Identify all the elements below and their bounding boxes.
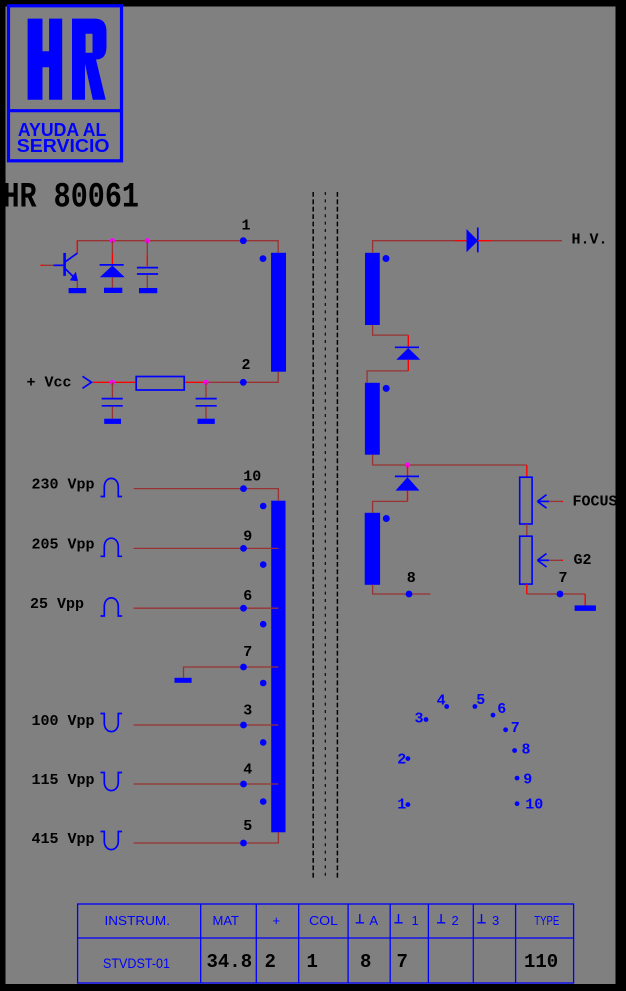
- ground (C1): [139, 288, 157, 293]
- waveform positive pulse: [101, 478, 123, 496]
- svg-text:HR 80061: HR 80061: [3, 178, 140, 218]
- pin diagram dot 5: [473, 704, 478, 709]
- polarity dot: [260, 798, 267, 805]
- table column lines: [200, 904, 202, 983]
- secondary winding S4 (tapped): [271, 501, 285, 833]
- core dashed line left: [312, 192, 314, 879]
- pin 8 dot: [406, 591, 413, 598]
- ground (C2): [104, 419, 121, 424]
- pin 5 dot: [240, 840, 247, 847]
- wire: Vcc red segments: [93, 381, 136, 383]
- ground (pin 7): [175, 678, 192, 683]
- pin diagram dot 3: [424, 717, 429, 722]
- pin 7 dot: [240, 664, 247, 671]
- pin 3 dot: [240, 722, 247, 729]
- capacitor C1: [137, 268, 158, 274]
- pin diagram dot 9: [515, 776, 520, 781]
- svg-text:230 Vpp: 230 Vpp: [32, 477, 95, 494]
- svg-text:2: 2: [242, 357, 251, 374]
- svg-text:FOCUS: FOCUS: [573, 493, 618, 510]
- capacitor C2: [102, 399, 123, 406]
- diode D1: [100, 265, 125, 277]
- svg-text:MAT: MAT: [213, 913, 240, 928]
- waveform positive pulse: [101, 538, 123, 556]
- svg-text:2: 2: [397, 752, 406, 769]
- svg-text:4: 4: [243, 761, 252, 778]
- header ⊥ 3: [477, 914, 485, 923]
- svg-text:STVDST-01: STVDST-01: [103, 956, 170, 971]
- wire: C1 to ground: [146, 275, 148, 288]
- ground (D1): [104, 288, 122, 293]
- svg-text:1: 1: [397, 797, 406, 814]
- svg-text:COL: COL: [309, 913, 338, 928]
- junction dot: [110, 238, 115, 243]
- secondary winding S1: [365, 253, 380, 325]
- table row divider: [78, 937, 574, 939]
- wire to capacitor C1: [146, 241, 148, 255]
- pin diagram dot 10: [515, 801, 520, 806]
- pin 9 dot: [240, 545, 247, 552]
- polarity dot: [260, 503, 267, 510]
- junction dot: [110, 380, 115, 385]
- polarity dot: [260, 739, 267, 746]
- secondary winding S2: [365, 383, 380, 455]
- svg-text:TYPE: TYPE: [534, 913, 559, 928]
- wire pin 3: [134, 724, 279, 726]
- core dashed line middle: [324, 192, 326, 879]
- header ⊥ A: [356, 914, 364, 923]
- polarity dot P1: [260, 255, 267, 262]
- potentiometer G2: [520, 536, 532, 584]
- header ⊥ 2: [437, 914, 445, 923]
- svg-text:1: 1: [307, 951, 318, 973]
- logo letter H: [28, 19, 63, 100]
- svg-text:5: 5: [476, 692, 485, 709]
- svg-text:2: 2: [452, 913, 459, 928]
- svg-text:10: 10: [243, 469, 261, 486]
- svg-text:7: 7: [243, 644, 252, 661]
- wire: pin 2 rail to primary bottom: [206, 372, 278, 383]
- svg-text:SERVICIO: SERVICIO: [17, 136, 110, 156]
- pin 4 dot: [240, 781, 247, 788]
- pin 1 dot: [240, 237, 247, 244]
- svg-text:6: 6: [497, 701, 506, 718]
- wire to D3: [407, 465, 409, 476]
- svg-text:8: 8: [522, 741, 531, 758]
- svg-text:415 Vpp: 415 Vpp: [32, 831, 95, 848]
- svg-text:8: 8: [407, 570, 416, 587]
- pin diagram dot 6: [491, 713, 496, 718]
- svg-text:9: 9: [243, 528, 252, 545]
- svg-text:+: +: [273, 913, 281, 928]
- svg-text:100 Vpp: 100 Vpp: [32, 713, 95, 730]
- svg-text:1: 1: [412, 913, 419, 928]
- waveform negative pulse: [101, 832, 123, 850]
- svg-text:115 Vpp: 115 Vpp: [32, 772, 95, 789]
- junction dot: [405, 462, 410, 467]
- pin 2 dot: [240, 379, 247, 386]
- wire pin 4: [134, 783, 279, 785]
- polarity dot: [260, 561, 267, 568]
- wire S1 top to H.V.: [373, 241, 455, 253]
- svg-text:H.V.: H.V.: [572, 232, 608, 249]
- wire: collector rail to pin 1 and primary top: [77, 241, 278, 253]
- wire: emitter to ground: [76, 281, 78, 289]
- potentiometer FOCUS: [520, 477, 532, 524]
- header ⊥ 1: [394, 914, 402, 923]
- resistor R1: [136, 377, 184, 391]
- pin diagram dot 4: [444, 704, 449, 709]
- pin diagram dot 2: [406, 756, 411, 761]
- svg-text:4: 4: [437, 693, 446, 710]
- Vcc input arrow: [83, 376, 92, 388]
- svg-text:3: 3: [415, 710, 424, 727]
- pin diagram dot 7: [503, 727, 508, 732]
- wiper arrow G2: [537, 554, 563, 567]
- svg-text:1: 1: [242, 218, 251, 235]
- wire pin 5 to winding bottom: [134, 832, 279, 843]
- table frame: [78, 904, 574, 983]
- polarity dot S1: [383, 255, 390, 262]
- svg-text:G2: G2: [574, 552, 592, 569]
- pin 6 dot: [240, 605, 247, 612]
- diode D2: [395, 347, 420, 359]
- secondary winding S3: [365, 513, 380, 585]
- svg-text:+ Vcc: + Vcc: [27, 375, 72, 392]
- wire rail to FOCUS pot: [526, 465, 528, 477]
- wire pin 9: [134, 547, 279, 549]
- wire S3 bottom to pin 8: [373, 585, 431, 594]
- waveform positive pulse: [101, 598, 123, 616]
- svg-text:6: 6: [243, 588, 252, 605]
- wire: red collector segment: [76, 240, 78, 253]
- logo letter R: [72, 19, 107, 100]
- HR logo box: [8, 6, 122, 161]
- wire pin 10 to winding top: [134, 489, 279, 501]
- wire D3 to S3 top: [407, 491, 409, 502]
- polarity dot S2: [383, 385, 390, 392]
- pin 10 dot: [240, 485, 247, 492]
- svg-text:INSTRUM.: INSTRUM.: [105, 913, 171, 928]
- svg-text:5: 5: [243, 818, 252, 835]
- pin diagram dot 1: [406, 802, 411, 807]
- waveform negative pulse: [101, 773, 123, 791]
- ground (G2): [575, 605, 596, 611]
- wire: C3 to ground: [205, 407, 207, 419]
- svg-text:110: 110: [524, 951, 558, 973]
- transistor Q1 base wire: [41, 264, 44, 266]
- svg-text:25 Vpp: 25 Vpp: [30, 596, 84, 613]
- wire: D1 to ground: [111, 277, 113, 288]
- wire D4 to H.V. label: [478, 240, 491, 242]
- wiper arrow FOCUS: [537, 495, 563, 508]
- wire D2 to S2 top: [407, 360, 409, 371]
- polarity dot: [260, 621, 267, 628]
- svg-text:8: 8: [360, 951, 371, 973]
- wire S2 bottom rail: [373, 455, 527, 465]
- wire: C2 drop: [111, 382, 113, 398]
- core dashed line right: [336, 192, 338, 879]
- svg-text:7: 7: [511, 720, 520, 737]
- svg-text:9: 9: [523, 772, 532, 789]
- wire down to ground: [584, 594, 586, 605]
- wire: C2 to ground: [111, 407, 113, 419]
- capacitor C3: [196, 399, 217, 406]
- pin 7 dot (right): [557, 591, 564, 598]
- junction dot: [145, 238, 150, 243]
- svg-text:205 Vpp: 205 Vpp: [32, 536, 95, 553]
- wire to diode D1: [111, 241, 113, 254]
- wire pin 7 to ground: [184, 667, 279, 678]
- ground (emitter): [69, 288, 87, 293]
- wire G2 to pin 7 and ground: [526, 584, 528, 594]
- wire S1 bottom to D2: [373, 325, 409, 335]
- wire: C3 drop: [205, 382, 207, 398]
- polarity dot: [260, 680, 267, 687]
- svg-text:34.8: 34.8: [207, 951, 253, 973]
- waveform negative pulse: [101, 714, 123, 732]
- wire pin 6: [134, 607, 279, 609]
- svg-text:3: 3: [492, 913, 499, 928]
- svg-text:10: 10: [525, 797, 543, 814]
- wire between pots: [526, 524, 528, 536]
- svg-text:3: 3: [243, 703, 252, 720]
- polarity dot S3: [383, 515, 390, 522]
- pin diagram dot 8: [512, 748, 517, 753]
- diode D4 (H.V.): [467, 228, 479, 253]
- junction dot: [203, 380, 208, 385]
- svg-text:2: 2: [265, 951, 276, 973]
- ground (C3): [198, 419, 215, 424]
- transistor Q1: [63, 253, 78, 281]
- svg-text:7: 7: [559, 570, 568, 587]
- diode D3: [395, 476, 420, 490]
- svg-text:7: 7: [397, 951, 408, 973]
- primary winding P1: [271, 253, 286, 372]
- svg-text:A: A: [369, 913, 378, 928]
